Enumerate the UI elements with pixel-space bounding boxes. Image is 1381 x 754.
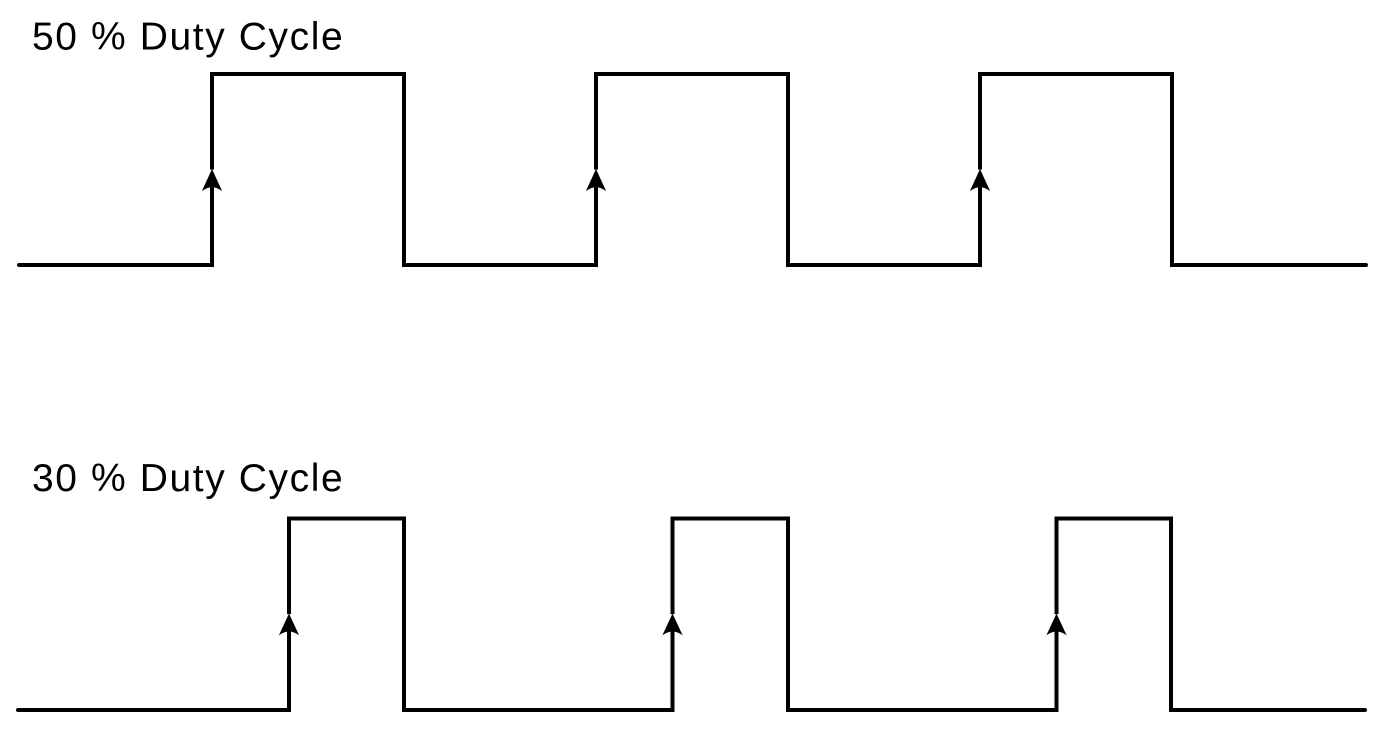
rounded free ends of 30% wave xyxy=(18,708,1365,712)
arrowhead on rising edge 2 (30%) xyxy=(662,614,682,636)
wire: 50% duty square wave (edges split at arrow tips) xyxy=(19,74,1366,265)
wire: 30% duty square wave (edges split at arrow tips) xyxy=(18,519,1365,711)
arrowhead on rising edge 1 (50%) xyxy=(202,169,222,191)
arrowhead on rising edge 2 (50%) xyxy=(586,169,606,191)
svg-text:30 % Duty Cycle: 30 % Duty Cycle xyxy=(32,457,344,500)
arrowhead on rising edge 3 (30%) xyxy=(1046,614,1066,636)
arrowhead on rising edge 3 (50%) xyxy=(970,169,990,191)
rounded free ends of 50% wave xyxy=(19,263,1366,267)
svg-text:50 % Duty Cycle: 50 % Duty Cycle xyxy=(32,16,344,59)
arrowhead on rising edge 1 (30%) xyxy=(279,614,299,636)
